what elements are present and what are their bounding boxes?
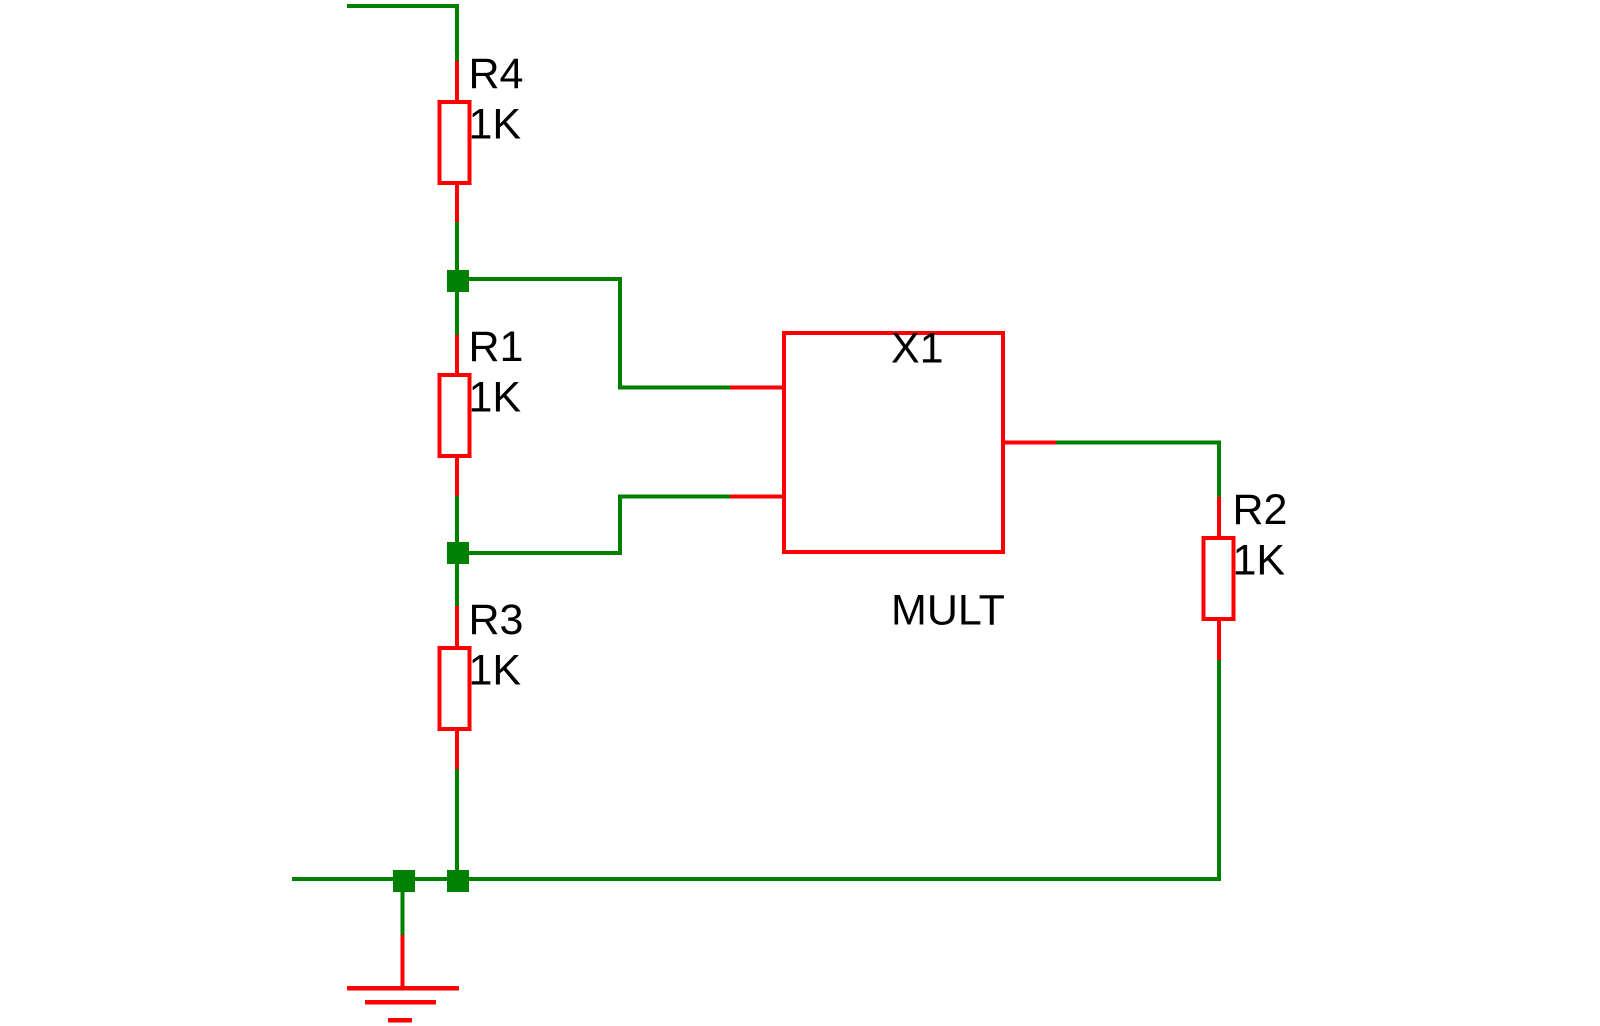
svg-text:R3: R3 bbox=[469, 596, 524, 644]
wire X1 output right bbox=[1056, 441, 1221, 445]
svg-text:R2: R2 bbox=[1233, 486, 1288, 534]
node C (junction rail / ground) bbox=[393, 870, 415, 892]
node D (junction rail / R3 column) bbox=[447, 870, 469, 892]
node B (junction R1/R3/X1 bottom input) bbox=[447, 542, 469, 564]
pin 2 stub of X1 bbox=[730, 495, 782, 499]
svg-text:MULT: MULT bbox=[891, 587, 1005, 635]
ground bbox=[347, 892, 459, 1023]
wire node B right bbox=[458, 551, 622, 555]
svg-text:1K: 1K bbox=[1233, 537, 1286, 585]
wire R3 bottom to ground rail bbox=[455, 769, 459, 881]
X1 output stub bbox=[1005, 441, 1056, 445]
node A (junction R4/R1/X1 top input) bbox=[447, 270, 469, 292]
resistor R4 bbox=[440, 61, 470, 222]
wire down to X1 pin1 level bbox=[618, 277, 622, 390]
wire R1 bottom to node B bbox=[455, 496, 459, 542]
wire top horizontal (V+ feed) bbox=[347, 4, 459, 8]
wire to X1 pin2 bbox=[618, 495, 730, 499]
wire node B to R3 bbox=[455, 564, 459, 606]
resistor R2 bbox=[1204, 497, 1234, 660]
multiplier X1 box bbox=[784, 333, 1003, 552]
ground rail (bottom horizontal wire) bbox=[292, 877, 1221, 881]
wire R4 bottom to node A bbox=[455, 222, 459, 281]
svg-text:1K: 1K bbox=[469, 647, 522, 695]
svg-text:X1: X1 bbox=[891, 324, 944, 372]
resistor R3 bbox=[440, 606, 470, 769]
wire down to R2 bbox=[1217, 441, 1221, 498]
pin 1 stub of X1 bbox=[730, 386, 782, 390]
wire to X1 pin1 bbox=[618, 386, 730, 390]
svg-text:R1: R1 bbox=[469, 323, 524, 371]
wire R2 bottom down to ground rail bbox=[1217, 660, 1221, 881]
svg-text:1K: 1K bbox=[469, 374, 522, 422]
svg-text:1K: 1K bbox=[469, 101, 522, 149]
wire node A to R1 bbox=[455, 292, 459, 335]
svg-text:R4: R4 bbox=[469, 50, 524, 98]
resistor R1 bbox=[440, 335, 470, 496]
wire top vertical into R4 bbox=[455, 4, 459, 61]
wire up to X1 pin2 level bbox=[618, 495, 622, 556]
wire node A right bbox=[458, 277, 622, 281]
